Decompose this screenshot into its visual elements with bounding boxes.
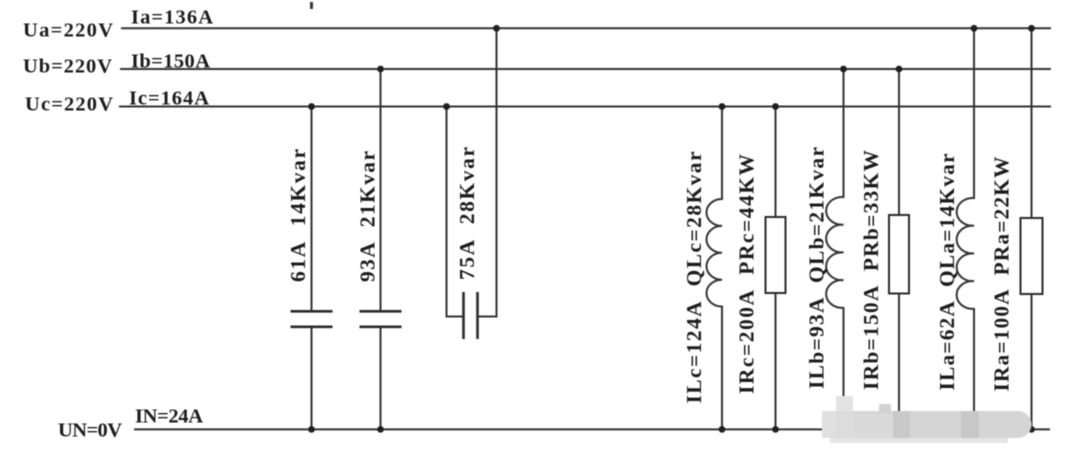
svg-text:Ic=164A: Ic=164A [129,88,209,110]
wire inductor La top lead [973,28,975,198]
svg-text:Ub=220V: Ub=220V [23,56,112,78]
wire capacitor C1 bottom lead [311,328,313,430]
wire capacitor C2 bottom lead [380,328,382,430]
node inductor Lb on Ib [840,66,847,73]
svg-text:IRa=100A PRa=22KW: IRa=100A PRa=22KW [990,156,1014,392]
node resistor Ra on Ia [1028,25,1035,32]
wire resistor Ra bottom lead [1031,294,1033,429]
node resistor Rc on IN [772,426,779,433]
svg-text:Uc=220V: Uc=220V [25,94,113,116]
wire phase A bus Ia [122,27,1050,29]
wire resistor Ra top lead [1031,28,1033,218]
wire phase C bus Ic [120,106,1050,108]
node resistor Rc on Ic [772,103,779,110]
wire capacitor C3 right lead [480,28,497,316]
resistor Ra body [1021,218,1043,294]
node capacitor C2 on IN [377,426,384,433]
node inductor La on Ia [971,25,978,32]
wire capacitor C2 top lead [380,69,382,311]
wire inductor Lb top lead [843,69,845,197]
wire phase B bus Ib [121,68,1050,70]
svg-text:IRb=150A PRb=33KW: IRb=150A PRb=33KW [859,150,883,391]
inductor La coil [957,198,974,309]
stray crop mark [310,2,313,9]
node capacitor C3 on Ic [443,103,450,110]
svg-text:IN=24A: IN=24A [135,406,203,428]
inductor Lc coil [706,199,722,307]
svg-text:ILa=62A QLa=14Kvar: ILa=62A QLa=14Kvar [935,153,959,390]
wire resistor Rb bottom lead [898,294,900,430]
node resistor Ra on IN [1028,426,1035,433]
resistor Rc body [766,217,786,293]
wire inductor Lb bottom lead [843,308,845,429]
node inductor Lc on IN [719,426,726,433]
wire capacitor C3 left lead [447,107,462,317]
svg-text:Ib=150A: Ib=150A [131,51,210,73]
wire resistor Rb top lead [898,69,900,215]
svg-text:ILb=93A QLb=21Kvar: ILb=93A QLb=21Kvar [805,147,829,389]
node capacitor C2 on Ib [377,66,384,73]
svg-text:UN=0V: UN=0V [58,420,122,442]
resistor Rb body [889,215,909,294]
capacitor C3 75A 28Kvar [462,292,465,339]
node capacitor C3 on Ia [493,25,500,32]
wire inductor Lc bottom lead [721,307,723,430]
svg-text:Ia=136A: Ia=136A [131,7,213,29]
node resistor Rb on Ib [896,66,903,73]
wire neutral bus IN [135,428,1049,430]
capacitor C1 61A 14Kvar [291,310,333,313]
node capacitor C1 on IN [308,426,315,433]
capacitor C2 93A 21Kvar [360,310,402,313]
wire resistor Rc bottom lead [775,293,777,429]
node inductor Lc on Ic [719,103,726,110]
wire resistor Rc top lead [775,107,777,218]
svg-text:ILc=124A QLc=28Kvar: ILc=124A QLc=28Kvar [682,151,706,403]
inductor Lb coil [826,197,843,308]
node capacitor C1 on Ic [308,103,315,110]
svg-text:IRc=200A PRc=44KW: IRc=200A PRc=44KW [735,154,759,395]
watermark blur patch [822,396,1032,443]
svg-text:Ua=220V: Ua=220V [23,20,113,42]
wire inductor La bottom lead [973,309,975,429]
wire capacitor C1 top lead [311,107,313,312]
wire inductor Lc top lead [721,107,723,200]
